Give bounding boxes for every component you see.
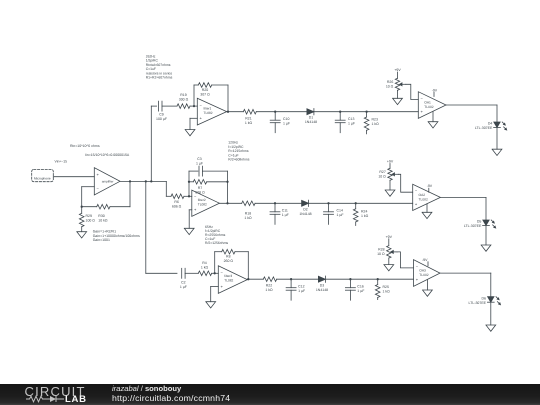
svg-text:1 µF: 1 µF bbox=[348, 121, 355, 125]
svg-text:R30: R30 bbox=[98, 214, 104, 218]
svg-text:Vin=~15: Vin=~15 bbox=[55, 160, 68, 164]
svg-text:TL082: TL082 bbox=[424, 105, 434, 109]
svg-text:R27: R27 bbox=[379, 170, 385, 174]
svg-text:R/2=608ohms: R/2=608ohms bbox=[228, 158, 250, 162]
svg-text:LTL-307EE: LTL-307EE bbox=[475, 126, 493, 130]
svg-text:10 Ω: 10 Ω bbox=[378, 175, 386, 179]
svg-text:+: + bbox=[416, 277, 419, 282]
svg-text:C14: C14 bbox=[337, 209, 343, 213]
svg-text:OA3: OA3 bbox=[419, 269, 426, 273]
svg-text:R24: R24 bbox=[361, 209, 367, 213]
svg-text:D5: D5 bbox=[477, 220, 482, 224]
svg-text:1N4148: 1N4148 bbox=[299, 212, 311, 216]
svg-text:R18: R18 bbox=[245, 211, 251, 215]
svg-text:Rin=10*10^6 ohms: Rin=10*10^6 ohms bbox=[70, 144, 100, 148]
svg-text:1 µF: 1 µF bbox=[180, 285, 187, 289]
svg-text:1N4148: 1N4148 bbox=[305, 120, 317, 124]
svg-text:R22: R22 bbox=[266, 284, 272, 288]
svg-text:C3: C3 bbox=[197, 157, 202, 161]
svg-text:+: + bbox=[421, 109, 424, 114]
svg-text:260 Ω: 260 Ω bbox=[224, 259, 234, 263]
svg-text:D3: D3 bbox=[320, 283, 325, 287]
svg-text:100 Ω: 100 Ω bbox=[86, 219, 96, 223]
svg-text:R4: R4 bbox=[202, 261, 207, 265]
svg-text:R23: R23 bbox=[372, 118, 378, 122]
svg-text:D6: D6 bbox=[482, 296, 487, 300]
svg-text:-9V: -9V bbox=[427, 184, 433, 188]
svg-text:1 µF: 1 µF bbox=[357, 289, 364, 293]
svg-text:Microphone: Microphone bbox=[34, 177, 51, 181]
svg-text:1 µF: 1 µF bbox=[298, 289, 305, 293]
svg-text:1N4148: 1N4148 bbox=[316, 288, 328, 292]
svg-text:R6: R6 bbox=[174, 200, 179, 204]
svg-text:+: + bbox=[200, 116, 203, 121]
svg-text:R29: R29 bbox=[86, 214, 92, 218]
svg-text:100 µF: 100 µF bbox=[156, 117, 167, 121]
svg-text:TL082: TL082 bbox=[419, 273, 429, 277]
svg-text:1 kΩ: 1 kΩ bbox=[372, 122, 380, 126]
svg-text:1 µF: 1 µF bbox=[283, 121, 290, 125]
svg-text:C16: C16 bbox=[357, 285, 363, 289]
svg-text:Gain=1001: Gain=1001 bbox=[93, 238, 110, 242]
svg-text:OA2: OA2 bbox=[419, 193, 426, 197]
svg-text:−: − bbox=[200, 102, 203, 107]
svg-text:D2: D2 bbox=[303, 208, 308, 212]
svg-text:C2: C2 bbox=[181, 281, 186, 285]
svg-text:10 kΩ: 10 kΩ bbox=[98, 219, 108, 223]
svg-text:filter3: filter3 bbox=[224, 274, 232, 278]
svg-text:606 Ω: 606 Ω bbox=[172, 204, 182, 208]
svg-text:TL082: TL082 bbox=[419, 198, 429, 202]
svg-text:1 kΩ: 1 kΩ bbox=[265, 288, 273, 292]
svg-text:R19: R19 bbox=[180, 93, 186, 97]
svg-text:OA1: OA1 bbox=[424, 100, 431, 104]
svg-text:filter1: filter1 bbox=[204, 106, 212, 110]
svg-text:filter2: filter2 bbox=[198, 198, 206, 202]
svg-text:LTL-307EE: LTL-307EE bbox=[464, 224, 482, 228]
svg-text:+: + bbox=[415, 201, 418, 206]
svg-text:R8: R8 bbox=[226, 255, 231, 259]
svg-text:C9: C9 bbox=[159, 112, 164, 116]
svg-text:+9V: +9V bbox=[394, 68, 401, 72]
svg-text:C10: C10 bbox=[283, 117, 289, 121]
svg-text:R20: R20 bbox=[202, 88, 208, 92]
svg-text:-9V: -9V bbox=[422, 258, 428, 262]
svg-text:1 µF: 1 µF bbox=[282, 213, 289, 217]
svg-text:+9V: +9V bbox=[387, 160, 394, 164]
svg-text:R28: R28 bbox=[378, 248, 384, 252]
svg-text:1 kΩ: 1 kΩ bbox=[245, 121, 253, 125]
svg-text:R26: R26 bbox=[387, 80, 393, 84]
svg-text:1 kΩ: 1 kΩ bbox=[201, 266, 209, 270]
svg-text:-9V: -9V bbox=[432, 88, 438, 92]
svg-text:+9V: +9V bbox=[386, 235, 393, 239]
svg-text:1 kΩ: 1 kΩ bbox=[244, 216, 252, 220]
svg-text:amplifier: amplifier bbox=[102, 180, 114, 184]
svg-text:R7: R7 bbox=[198, 186, 203, 190]
svg-text:TL082: TL082 bbox=[224, 279, 233, 283]
svg-text:R/2=1256ohms: R/2=1256ohms bbox=[205, 241, 228, 245]
svg-text:D4: D4 bbox=[488, 122, 493, 126]
svg-text:C13: C13 bbox=[348, 117, 354, 121]
svg-text:R21: R21 bbox=[245, 117, 251, 121]
svg-text:307 Ω: 307 Ω bbox=[200, 93, 210, 97]
svg-text:10 Ω: 10 Ω bbox=[386, 85, 394, 89]
svg-text:D1: D1 bbox=[309, 116, 314, 120]
svg-text:1 µF: 1 µF bbox=[196, 161, 203, 165]
svg-text:−: − bbox=[221, 270, 224, 275]
svg-text:+: + bbox=[194, 207, 197, 212]
svg-text:−: − bbox=[421, 96, 424, 101]
svg-text:Iin=15/10*10^6=0.0000015A: Iin=15/10*10^6=0.0000015A bbox=[85, 153, 130, 157]
svg-text:−: − bbox=[194, 194, 197, 199]
svg-text:R1+R2=607ohms: R1+R2=607ohms bbox=[146, 76, 173, 80]
svg-text:1 kΩ: 1 kΩ bbox=[361, 214, 369, 218]
svg-text:TL082: TL082 bbox=[204, 111, 213, 115]
svg-text:C11: C11 bbox=[282, 209, 288, 213]
svg-text:1 µF: 1 µF bbox=[337, 213, 344, 217]
svg-text:TL082: TL082 bbox=[198, 203, 207, 207]
svg-text:−: − bbox=[416, 264, 419, 269]
svg-text:R25: R25 bbox=[383, 285, 389, 289]
svg-text:300 Ω: 300 Ω bbox=[179, 98, 189, 102]
svg-text:+: + bbox=[221, 284, 224, 289]
svg-text:LTL-307EE: LTL-307EE bbox=[469, 301, 487, 305]
svg-text:1 kΩ: 1 kΩ bbox=[383, 289, 391, 293]
svg-text:10 Ω: 10 Ω bbox=[377, 252, 385, 256]
svg-text:−: − bbox=[97, 186, 100, 191]
svg-text:+: + bbox=[97, 172, 100, 177]
svg-text:−: − bbox=[415, 188, 418, 193]
svg-text:C12: C12 bbox=[298, 285, 304, 289]
